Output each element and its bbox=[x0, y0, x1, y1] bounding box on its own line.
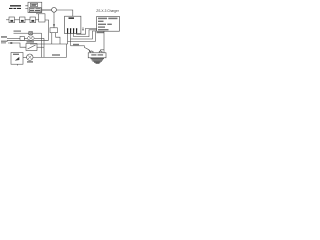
plug flag icon bbox=[15, 57, 19, 61]
RL1 label bbox=[69, 17, 75, 19]
wire S2-S3 bbox=[25, 19, 30, 21]
label above SW2 bbox=[27, 41, 35, 42]
RL1 pins bbox=[67, 28, 78, 33]
meter label bbox=[27, 61, 33, 62]
wire S1-S2 bbox=[15, 19, 20, 21]
wire row2 bbox=[7, 37, 20, 39]
label row2 bbox=[1, 36, 7, 38]
switch SW2 box with diagonal bbox=[26, 44, 37, 51]
wire row3 bbox=[7, 39, 49, 41]
control board CB1 bbox=[97, 16, 120, 31]
breaker chain stub bbox=[6, 19, 9, 21]
vertical drop B bbox=[43, 38, 45, 57]
label row4 bbox=[1, 41, 8, 42]
wire row1 to junction bbox=[32, 32, 41, 34]
shunt label bbox=[52, 54, 60, 55]
wire T1 to lamp bbox=[24, 37, 27, 39]
pin2 drop to fan wire bbox=[70, 39, 72, 46]
harness wire 4 bbox=[68, 31, 96, 41]
svg-text:ZS-X-3 Charger: ZS-X-3 Charger bbox=[96, 9, 119, 13]
wire plug to meter bbox=[23, 56, 27, 58]
battery base plates bbox=[91, 59, 105, 64]
fan wire bbox=[71, 45, 85, 47]
inline tick bbox=[10, 42, 12, 44]
module K1 bbox=[39, 14, 45, 22]
switch S3 bbox=[30, 17, 36, 23]
battery BT1 posts bbox=[92, 50, 101, 53]
fuse F2 box with X bbox=[29, 32, 33, 35]
relay board RL1 bbox=[65, 16, 81, 33]
wire lamp to junction bbox=[34, 37, 44, 39]
bottom shunt wire bbox=[33, 56, 67, 58]
switch S1 bbox=[9, 17, 15, 23]
power module inner box top bbox=[31, 3, 38, 6]
vertical drop A bbox=[41, 33, 43, 57]
power module PS1 bbox=[28, 2, 42, 12]
wire K1 down to bus bbox=[45, 20, 49, 40]
stub to right post bbox=[101, 49, 105, 51]
wire fuse to relay box bbox=[56, 10, 72, 16]
battery BT1 body bbox=[88, 53, 106, 58]
switch S2 bbox=[20, 17, 26, 23]
label row1 bbox=[14, 31, 22, 32]
plug stub bbox=[17, 64, 19, 65]
wire SW2 out bbox=[37, 46, 44, 48]
pin1 drop to bus bbox=[67, 41, 69, 44]
plug label bbox=[13, 54, 19, 55]
harness wire 3 bbox=[71, 31, 97, 39]
wire row1 bbox=[14, 32, 29, 34]
AC input thick bar bbox=[10, 5, 21, 6]
harness wire 1 bbox=[77, 28, 97, 34]
wire from power module to fuse F1 bbox=[42, 9, 52, 11]
wire S3 to module K1 bbox=[36, 19, 39, 21]
arrow tick bbox=[82, 27, 84, 29]
meter M1 bbox=[27, 54, 33, 60]
lamp L1 bbox=[28, 36, 35, 41]
vertical feed wire with arrow bbox=[53, 12, 55, 28]
AC input label text bbox=[9, 8, 21, 9]
label under control board bbox=[97, 32, 105, 33]
diagonal feed to battery plus bbox=[85, 46, 90, 50]
fan label bbox=[73, 44, 79, 45]
U2 legs bbox=[52, 33, 60, 44]
fuse F1 circle bbox=[52, 7, 57, 12]
power module inner box bottom bbox=[29, 8, 41, 12]
harness wire 2 bbox=[74, 30, 97, 37]
inline component T1 bbox=[20, 36, 24, 40]
charger plug box bbox=[11, 53, 23, 65]
wire row4 entry bbox=[8, 43, 26, 47]
wire input to power module bbox=[25, 6, 28, 9]
regulator U2 bbox=[50, 28, 57, 33]
wire control board to battery minus bbox=[104, 31, 106, 56]
bus wire mid bbox=[30, 44, 68, 57]
arrowhead bbox=[53, 24, 55, 26]
